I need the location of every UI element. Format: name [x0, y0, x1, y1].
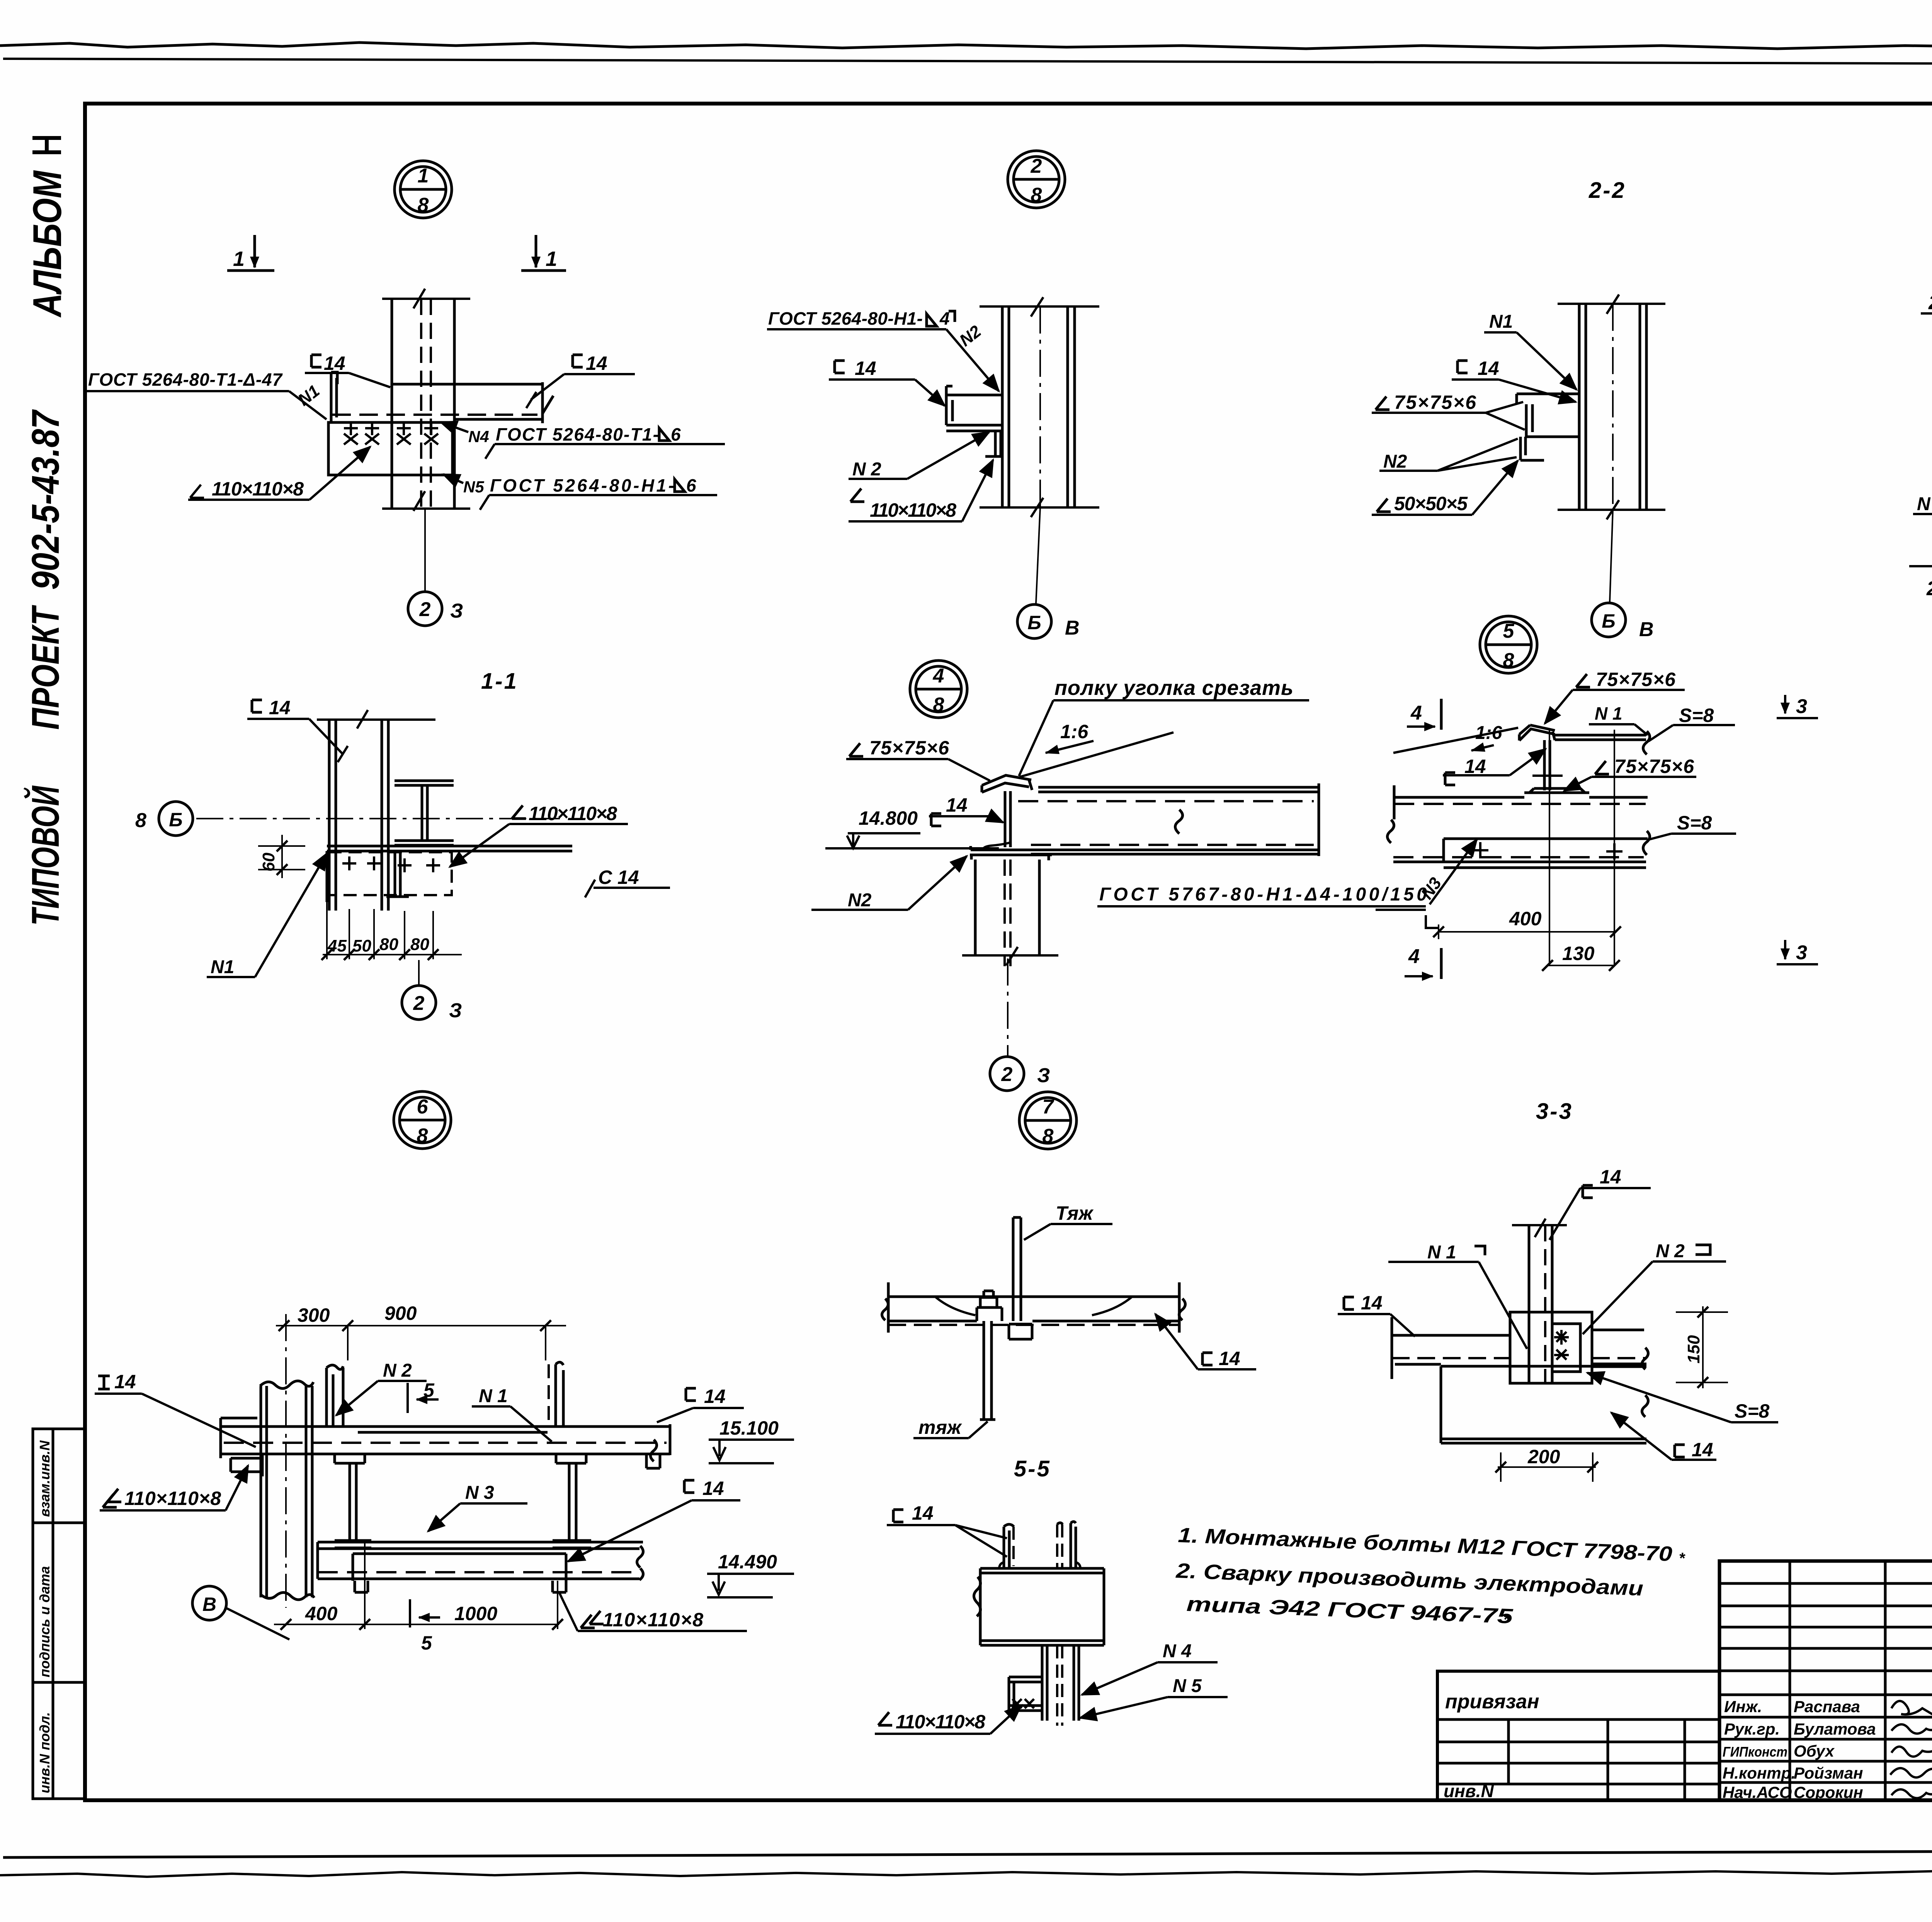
svg-text:130: 130: [1562, 943, 1595, 964]
svg-text:S=8: S=8: [1735, 1400, 1770, 1422]
svg-text:14: 14: [1600, 1166, 1621, 1188]
svg-text:5: 5: [1503, 620, 1515, 642]
svg-text:S=8: S=8: [1679, 705, 1714, 726]
svg-text:400: 400: [1509, 908, 1542, 930]
svg-text:Нач.АСО: Нач.АСО: [1723, 1783, 1792, 1801]
svg-text:З: З: [1037, 1064, 1050, 1087]
svg-text:Обух: Обух: [1794, 1742, 1835, 1760]
svg-text:14: 14: [1692, 1439, 1713, 1461]
svg-text:4: 4: [1410, 702, 1422, 724]
svg-text:подпись и дата: подпись и дата: [37, 1566, 53, 1677]
svg-text:14: 14: [946, 794, 968, 816]
svg-text:110×110×8: 110×110×8: [896, 1711, 985, 1733]
svg-text:110×110×8: 110×110×8: [124, 1488, 221, 1509]
svg-text:14: 14: [1361, 1292, 1383, 1314]
svg-text:5: 5: [421, 1632, 432, 1654]
svg-text:N1: N1: [1489, 312, 1513, 332]
svg-text:инв.N: инв.N: [1444, 1781, 1494, 1801]
svg-text:ПРОЕКТ: ПРОЕКТ: [24, 604, 68, 730]
svg-text:тяж: тяж: [918, 1416, 962, 1438]
svg-text:75×75×6: 75×75×6: [1596, 669, 1676, 690]
svg-text:2: 2: [1001, 1063, 1013, 1086]
svg-text:N2: N2: [848, 890, 872, 911]
svg-text:75×75×6: 75×75×6: [1394, 392, 1476, 413]
svg-text:полку уголка срезать: полку уголка срезать: [1054, 676, 1293, 700]
svg-text:N 2: N 2: [383, 1360, 412, 1381]
svg-text:3: 3: [1796, 695, 1807, 718]
svg-text:400: 400: [305, 1603, 338, 1624]
svg-text:14: 14: [1478, 358, 1499, 379]
svg-text:привязан: привязан: [1445, 1690, 1539, 1713]
svg-text:14: 14: [1219, 1348, 1240, 1369]
svg-text:Распава: Распава: [1794, 1697, 1860, 1716]
svg-text:200: 200: [1527, 1446, 1560, 1467]
svg-text:2: 2: [1926, 577, 1932, 600]
svg-text:инв.N подл.: инв.N подл.: [37, 1712, 53, 1793]
svg-text:300: 300: [298, 1304, 330, 1326]
svg-text:14: 14: [269, 697, 291, 718]
svg-text:N4: N4: [468, 427, 489, 446]
svg-text:60: 60: [259, 853, 278, 872]
svg-text:6: 6: [417, 1096, 429, 1118]
svg-text:4: 4: [933, 665, 944, 687]
svg-text:S=8: S=8: [1677, 812, 1712, 834]
svg-text:1-1: 1-1: [481, 669, 518, 694]
svg-text:Сорокин: Сорокин: [1794, 1783, 1863, 1801]
svg-text:14: 14: [586, 352, 607, 374]
svg-text:ГИПконст: ГИПконст: [1723, 1744, 1787, 1760]
svg-text:ГОСТ 5264-80-Т1-: ГОСТ 5264-80-Т1-: [496, 424, 659, 444]
svg-text:ГОСТ 5264-80-Т1-Δ-47: ГОСТ 5264-80-Т1-Δ-47: [88, 369, 283, 390]
svg-text:Б: Б: [1602, 610, 1615, 632]
svg-text:Инж.: Инж.: [1724, 1697, 1762, 1716]
svg-text:150: 150: [1684, 1335, 1703, 1364]
svg-text:N 2: N 2: [1917, 494, 1932, 514]
svg-text:С 14: С 14: [598, 867, 639, 888]
svg-text:N 2: N 2: [1656, 1241, 1685, 1261]
svg-text:3-3: 3-3: [1536, 1099, 1573, 1124]
svg-text:N5: N5: [463, 478, 484, 496]
svg-text:14.490: 14.490: [718, 1551, 777, 1573]
svg-text:6: 6: [671, 424, 681, 444]
svg-text:взам.инв.N: взам.инв.N: [37, 1440, 53, 1517]
svg-text:N 1: N 1: [1595, 703, 1622, 724]
svg-text:8: 8: [418, 194, 429, 216]
svg-text:N 1: N 1: [479, 1386, 508, 1406]
svg-text:N 2: N 2: [852, 459, 881, 480]
svg-text:50: 50: [352, 936, 371, 955]
svg-text:14: 14: [702, 1478, 724, 1499]
svg-text:8: 8: [135, 809, 146, 832]
svg-text:902-5-43.87: 902-5-43.87: [24, 409, 67, 590]
svg-text:2: 2: [1031, 155, 1042, 177]
svg-text:110×110×8: 110×110×8: [212, 478, 304, 500]
svg-text:8: 8: [1503, 649, 1514, 672]
svg-text:2: 2: [413, 992, 425, 1015]
svg-text:З: З: [450, 600, 463, 622]
svg-text:ГОСТ 5767-80-Н1-Δ4-100/150: ГОСТ 5767-80-Н1-Δ4-100/150: [1099, 884, 1427, 905]
svg-text:14.800: 14.800: [859, 807, 918, 829]
svg-text:110×110×8: 110×110×8: [870, 499, 956, 521]
svg-text:ГОСТ 5264-80-Н1-: ГОСТ 5264-80-Н1-: [768, 308, 923, 329]
svg-text:45: 45: [327, 936, 347, 955]
svg-text:7: 7: [1043, 1096, 1054, 1118]
svg-text:ТИПОВОЙ: ТИПОВОЙ: [23, 785, 67, 926]
svg-text:В: В: [1639, 618, 1654, 641]
svg-text:З: З: [449, 999, 462, 1022]
svg-text:110×110×8: 110×110×8: [529, 803, 617, 824]
svg-text:N 5: N 5: [1173, 1676, 1202, 1696]
svg-text:2: 2: [1928, 291, 1932, 314]
svg-text:N1: N1: [211, 957, 234, 977]
svg-text:4: 4: [939, 308, 950, 329]
svg-text:Ройзман: Ройзман: [1794, 1764, 1863, 1782]
svg-text:2: 2: [419, 598, 431, 621]
svg-text:14: 14: [704, 1386, 726, 1407]
svg-text:75×75×6: 75×75×6: [1614, 756, 1694, 777]
svg-text:8: 8: [933, 694, 944, 716]
svg-text:1000: 1000: [454, 1603, 497, 1624]
svg-text:110×110×8: 110×110×8: [603, 1609, 703, 1631]
svg-text:1: 1: [546, 247, 557, 271]
svg-text:8: 8: [1043, 1125, 1054, 1147]
svg-text:1: 1: [418, 165, 429, 187]
svg-text:Тяж: Тяж: [1056, 1202, 1094, 1224]
svg-text:3: 3: [1796, 941, 1807, 964]
svg-text:8: 8: [1031, 184, 1042, 206]
svg-text:Рук.гр.: Рук.гр.: [1724, 1720, 1780, 1738]
svg-text:В: В: [1065, 617, 1080, 639]
svg-text:900: 900: [384, 1302, 417, 1324]
svg-text:75×75×6: 75×75×6: [869, 737, 949, 759]
svg-text:Б: Б: [169, 809, 182, 831]
svg-text:1:6: 1:6: [1475, 723, 1502, 743]
svg-text:14: 14: [855, 358, 876, 379]
svg-text:N2: N2: [1383, 451, 1407, 472]
svg-text:14: 14: [1464, 756, 1486, 777]
svg-text:Булатова: Булатова: [1794, 1720, 1876, 1738]
svg-text:АЛЬБОМ: АЛЬБОМ: [25, 170, 70, 318]
svg-text:2-2: 2-2: [1588, 178, 1626, 203]
svg-text:50×50×5: 50×50×5: [1394, 493, 1468, 514]
svg-text:14: 14: [114, 1371, 136, 1393]
svg-text:1:6: 1:6: [1060, 721, 1088, 742]
svg-text:80: 80: [410, 935, 429, 954]
svg-text:1: 1: [233, 247, 245, 271]
svg-text:N 3: N 3: [465, 1483, 494, 1503]
svg-text:8: 8: [417, 1125, 428, 1147]
svg-text:14: 14: [912, 1502, 934, 1524]
svg-text:6: 6: [686, 475, 696, 495]
svg-text:4: 4: [1408, 945, 1420, 968]
svg-text:5: 5: [423, 1379, 435, 1401]
svg-text:Н.контр.: Н.контр.: [1723, 1764, 1796, 1782]
svg-text:5-5: 5-5: [1014, 1456, 1051, 1481]
svg-text:N 4: N 4: [1163, 1641, 1192, 1662]
svg-text:14: 14: [324, 352, 345, 374]
svg-text:Б: Б: [1027, 612, 1041, 633]
svg-text:В: В: [202, 1593, 216, 1615]
svg-text:N 1: N 1: [1427, 1242, 1456, 1263]
svg-text:80: 80: [379, 935, 398, 954]
svg-text:15.100: 15.100: [719, 1417, 779, 1439]
